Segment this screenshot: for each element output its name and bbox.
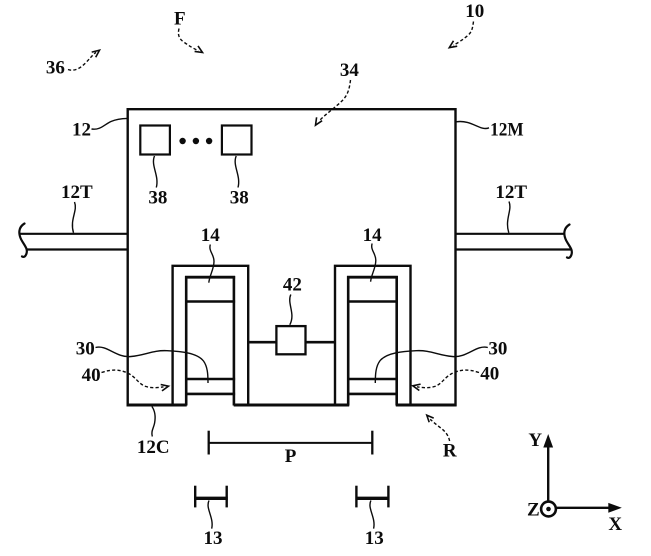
component block 38 right [222, 126, 252, 155]
svg-text:12T: 12T [495, 182, 527, 203]
leader 30 right [375, 347, 488, 383]
housing 12 bottom edge center segment [234, 404, 350, 407]
guide rail 14 left lower cross line 30 [185, 378, 235, 381]
component block 38 left [140, 126, 170, 155]
ellipsis dot 3 [206, 138, 212, 144]
svg-text:12T: 12T [61, 182, 93, 203]
leader arrow 40 right [417, 370, 479, 388]
sensor mark 13 right bar [356, 497, 390, 500]
leader 12C [152, 407, 155, 437]
guide rail 14 right upper cross line [347, 300, 398, 303]
leader arrow R [430, 419, 449, 441]
sensor mark 13 left bar [194, 497, 228, 500]
dimension P left tick [208, 431, 210, 455]
wire from left guide to block 42 [249, 341, 276, 344]
housing 12 left edge [126, 108, 128, 406]
sensor mark 13 right tick R [387, 486, 389, 508]
rail 12T right upper line [455, 233, 565, 235]
leader 13 right [370, 501, 374, 529]
svg-text:14: 14 [363, 225, 383, 246]
svg-text:30: 30 [76, 339, 95, 360]
svg-text:P: P [285, 446, 297, 467]
axis Y arrow shaft [547, 447, 549, 502]
svg-text:R: R [443, 441, 457, 462]
guide rail 14 right inner left wall [347, 276, 350, 406]
svg-text:38: 38 [148, 187, 167, 208]
rail 12T right break squiggle [564, 225, 572, 258]
svg-text:13: 13 [204, 528, 223, 549]
arrowhead 10 [449, 41, 457, 48]
leader 38 right [235, 156, 239, 188]
svg-text:10: 10 [465, 1, 484, 22]
svg-text:12: 12 [72, 120, 91, 141]
rail 12T left lower line [26, 248, 128, 250]
leader 38 left [153, 156, 157, 188]
svg-text:13: 13 [365, 528, 384, 549]
arrowhead F [195, 46, 203, 53]
axis X arrow shaft [557, 507, 610, 509]
axis Z circle [541, 502, 556, 517]
housing 12 bottom edge left segment [127, 404, 187, 407]
svg-text:12M: 12M [490, 120, 524, 141]
leader 14 right [371, 244, 376, 282]
leader 12 [92, 118, 128, 129]
ellipsis dot 1 [179, 138, 185, 144]
dimension line P [209, 442, 373, 444]
arrowhead 40 left [161, 385, 169, 391]
svg-text:Z: Z [527, 500, 540, 521]
guide rail 14 right bottom edge [347, 393, 398, 396]
svg-text:38: 38 [230, 187, 249, 208]
dimension P right tick [371, 431, 373, 455]
actuator block 42 [276, 326, 305, 354]
rail 12T right lower line [455, 248, 571, 250]
svg-text:Y: Y [528, 430, 542, 451]
svg-text:X: X [608, 514, 622, 535]
guide rail 14 right lower cross line 30 [347, 378, 398, 381]
guide bracket 14 left outer U [173, 266, 249, 405]
leader arrow 34 [320, 80, 351, 121]
rail 12T left break squiggle [19, 224, 27, 257]
svg-text:40: 40 [82, 365, 101, 386]
leader 12T left [72, 202, 75, 233]
sensor mark 13 left tick L [194, 486, 196, 508]
leader 30 left [96, 347, 209, 383]
leader arrow 36 [68, 52, 96, 70]
leader arrow 10 [454, 22, 474, 46]
rail 12T left upper line [20, 233, 128, 235]
guide rail 14 left inner left wall [185, 276, 188, 406]
svg-text:40: 40 [480, 364, 499, 385]
leader 12M [456, 122, 489, 129]
leader 12T right [507, 202, 509, 233]
ellipsis dot 2 [193, 138, 199, 144]
arrowhead R [427, 415, 434, 422]
housing 12 top edge [127, 108, 457, 110]
axis Z dot [546, 507, 551, 512]
guide rail 14 left upper cross line [185, 300, 235, 303]
svg-text:42: 42 [283, 274, 302, 295]
guide rail 14 right inner right wall [395, 276, 398, 406]
guide rail 14 left bottom edge [185, 393, 235, 396]
wire from block 42 to right guide [306, 341, 335, 344]
housing 12 right edge [454, 108, 456, 406]
leader arrow F [178, 29, 198, 51]
guide bracket 14 right outer U [335, 266, 411, 405]
svg-text:30: 30 [488, 339, 507, 360]
guide rail 14 right top edge [347, 276, 398, 279]
svg-text:36: 36 [46, 57, 65, 78]
leader 14 left [209, 245, 214, 283]
guide rail 14 left inner right wall [233, 276, 236, 406]
guide rail 14 left top edge [185, 276, 235, 279]
leader arrow 40 left [102, 370, 164, 388]
svg-text:12C: 12C [137, 437, 170, 458]
arrowhead 34 [316, 117, 323, 125]
sensor mark 13 left tick R [225, 486, 227, 508]
leader 13 left [208, 501, 212, 529]
svg-text:F: F [174, 8, 186, 29]
svg-text:14: 14 [201, 225, 221, 246]
leader 42 [290, 295, 292, 325]
axis Y arrowhead [543, 434, 553, 448]
axis X arrowhead [608, 503, 622, 513]
sensor mark 13 right tick L [355, 486, 357, 508]
arrowhead 40 right [413, 384, 421, 390]
housing 12 bottom edge right segment [396, 404, 457, 407]
arrowhead 36 [92, 50, 100, 57]
svg-text:34: 34 [340, 60, 360, 81]
